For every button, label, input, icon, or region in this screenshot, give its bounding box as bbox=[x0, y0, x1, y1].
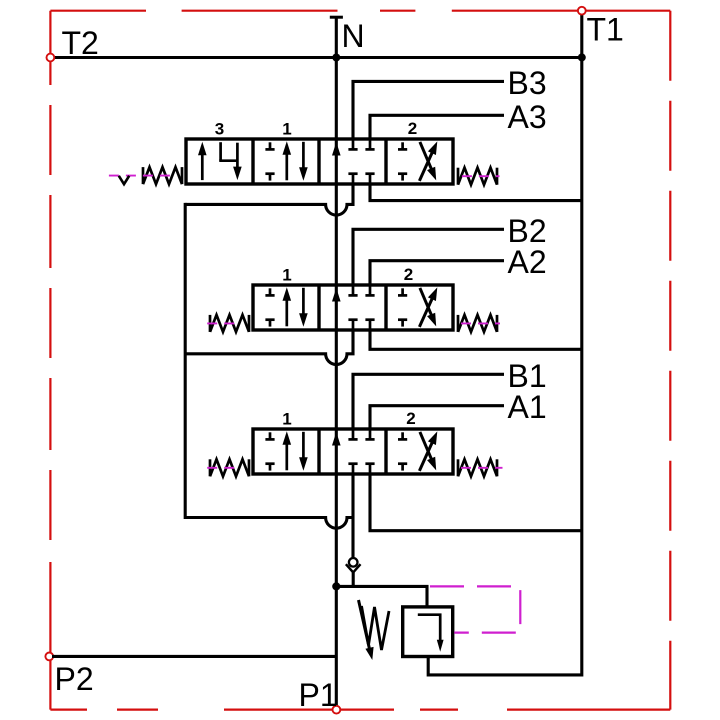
label P1 bbox=[299, 677, 338, 713]
svg-text:P2: P2 bbox=[55, 661, 94, 697]
wire valve V3 tank return to T1 bbox=[370, 184, 582, 201]
wire P2 rail bbox=[52, 655, 336, 658]
valve V1 left return spring bbox=[210, 459, 249, 476]
svg-text:A1: A1 bbox=[508, 389, 547, 425]
wire port A3 bbox=[370, 115, 504, 139]
wire port A1 bbox=[370, 406, 504, 429]
valve V3 position 3 label bbox=[215, 119, 224, 138]
valve V1 position 2 symbols bbox=[398, 431, 437, 471]
pilot line valve V1 right (magenta dashed) bbox=[461, 467, 503, 469]
pilot line valve V3 right (magenta dashed) bbox=[462, 175, 500, 177]
valve section V2 body outline bbox=[253, 285, 453, 330]
relief valve RV1 body bbox=[403, 607, 453, 657]
valve V2 position 2 symbols bbox=[398, 287, 437, 327]
wire valve V3 bypass to left frame (with crossover hop) bbox=[185, 184, 353, 215]
wire T1 vertical + relief return bbox=[428, 15, 582, 675]
svg-text:1: 1 bbox=[282, 265, 291, 284]
relief valve RV1 adjustable spring bbox=[359, 600, 390, 660]
node junction N x T2 rail bbox=[332, 54, 340, 62]
svg-text:3: 3 bbox=[215, 119, 224, 138]
label A2 bbox=[508, 244, 547, 280]
node junction T1 x T2 rail bbox=[578, 53, 586, 61]
port T2 (red circle) bbox=[47, 54, 55, 62]
valve V3 right return spring bbox=[458, 168, 497, 185]
svg-text:N: N bbox=[342, 18, 365, 54]
valve V1 position 1 label bbox=[282, 409, 291, 428]
svg-text:T1: T1 bbox=[587, 12, 624, 48]
label T2 bbox=[62, 25, 99, 61]
valve V3 centre position symbols bbox=[332, 139, 375, 184]
valve section V1 body outline bbox=[253, 429, 453, 474]
label A3 bbox=[508, 99, 547, 135]
valve V3 position 2 symbols bbox=[398, 141, 437, 181]
valve V3 position 1 label bbox=[282, 119, 291, 138]
valve V2 right return spring bbox=[458, 315, 497, 332]
wire port B2 bbox=[353, 229, 504, 285]
valve V2 position 1 label bbox=[282, 265, 291, 284]
valve V3 position 1 symbols bbox=[265, 141, 307, 181]
label N bbox=[342, 18, 365, 54]
label B3 bbox=[508, 65, 547, 101]
valve V1 position 1 symbols bbox=[265, 431, 307, 471]
svg-text:2: 2 bbox=[408, 119, 417, 138]
wire valve V2 bypass to left frame (with crossover hop) bbox=[185, 330, 353, 364]
label B2 bbox=[508, 213, 547, 249]
wire relief feed bbox=[336, 586, 427, 608]
wire valve V2 tank return to T1 bbox=[370, 330, 582, 349]
valve V3 position 3 symbols (float) bbox=[198, 142, 242, 180]
valve V1 position 2 label bbox=[406, 409, 415, 428]
relief valve RV1 remote pilot line (magenta dashed) bbox=[430, 586, 520, 632]
svg-text:B3: B3 bbox=[508, 65, 547, 101]
wire valve V1 tank return to T1 bbox=[370, 474, 582, 531]
carry-over chevron bbox=[346, 564, 361, 572]
wire left bypass frame vertical bbox=[184, 203, 187, 519]
relief valve RV1 flow arrow bbox=[418, 615, 444, 652]
node junction P1 x relief feed bbox=[332, 582, 340, 590]
label P2 bbox=[55, 661, 94, 697]
valve V3 position 2 label bbox=[408, 119, 417, 138]
pilot line valve V1 left (magenta dashed) bbox=[207, 467, 239, 469]
wire port A2 bbox=[370, 261, 504, 285]
port P1 (red circle) bbox=[333, 706, 341, 714]
port N plug cap bbox=[330, 16, 343, 19]
svg-text:2: 2 bbox=[404, 265, 413, 284]
svg-text:2: 2 bbox=[406, 409, 415, 428]
wire N / P1 vertical line bbox=[335, 17, 338, 706]
wire carry-over to relief line bbox=[352, 572, 355, 588]
label T1 bbox=[587, 12, 624, 48]
valve V2 left return spring bbox=[210, 315, 249, 332]
valve V1 right return spring bbox=[458, 459, 497, 476]
wire port B3 bbox=[353, 81, 504, 139]
pilot line valve V2 left (magenta dashed) bbox=[207, 322, 239, 324]
port T1 (red circle) bbox=[578, 7, 586, 15]
svg-text:1: 1 bbox=[282, 119, 291, 138]
svg-text:T2: T2 bbox=[62, 25, 99, 61]
valve V2 position 2 label bbox=[404, 265, 413, 284]
valve V3 left return spring bbox=[143, 167, 182, 184]
pilot line valve V2 right (magenta dashed) bbox=[461, 322, 500, 324]
wire T2 rail bbox=[53, 56, 582, 59]
valve section V3 body outline bbox=[186, 139, 453, 184]
svg-text:1: 1 bbox=[282, 409, 291, 428]
label A1 bbox=[508, 389, 547, 425]
wire port B1 bbox=[353, 374, 504, 429]
valve V2 position 1 symbols bbox=[265, 287, 307, 327]
svg-text:A3: A3 bbox=[508, 99, 547, 135]
valve V3 pilot check notch bbox=[119, 176, 129, 184]
label B1 bbox=[508, 358, 547, 394]
valve V1 centre position symbols bbox=[332, 429, 375, 474]
valve V2 centre position symbols bbox=[332, 285, 375, 330]
carry-over check port (circle) bbox=[349, 558, 358, 567]
svg-text:A2: A2 bbox=[508, 244, 547, 280]
svg-text:P1: P1 bbox=[299, 677, 338, 713]
port P2 (red circle) bbox=[45, 653, 53, 661]
wire valve V1 bypass to left frame (with crossover hop) bbox=[185, 474, 353, 558]
pilot line valve V3 left (magenta dashed) bbox=[109, 175, 177, 177]
